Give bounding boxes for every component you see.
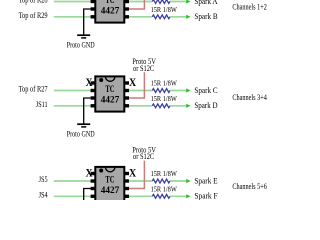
svg-text:Spark F: Spark F xyxy=(194,192,218,200)
svg-text:15R 1/8W: 15R 1/8W xyxy=(151,186,177,194)
svg-text:JS5: JS5 xyxy=(39,175,48,184)
svg-text:X: X xyxy=(86,168,94,180)
svg-text:X: X xyxy=(129,168,137,180)
svg-text:X: X xyxy=(129,77,137,89)
svg-text:TC: TC xyxy=(105,175,114,185)
svg-text:15R 1/8W: 15R 1/8W xyxy=(151,80,177,88)
svg-text:Channels 3+4: Channels 3+4 xyxy=(232,93,267,102)
svg-text:JS11: JS11 xyxy=(36,100,48,109)
svg-text:Top of R28: Top of R28 xyxy=(19,0,48,5)
svg-text:Channels 1+2: Channels 1+2 xyxy=(232,3,267,12)
svg-text:JS4: JS4 xyxy=(39,191,48,200)
svg-text:15R 1/8W: 15R 1/8W xyxy=(151,6,177,14)
svg-text:15R 1/8W: 15R 1/8W xyxy=(151,95,177,103)
svg-text:TC: TC xyxy=(105,0,114,5)
svg-text:Spark B: Spark B xyxy=(194,12,217,21)
svg-text:Spark C: Spark C xyxy=(194,86,217,95)
svg-text:or S12C: or S12C xyxy=(133,152,154,161)
svg-text:4427: 4427 xyxy=(101,6,120,16)
svg-text:Spark E: Spark E xyxy=(194,176,217,185)
svg-text:Proto GND: Proto GND xyxy=(67,40,95,49)
svg-text:Top of R29: Top of R29 xyxy=(19,11,48,20)
svg-text:15R 1/8W: 15R 1/8W xyxy=(151,170,177,178)
svg-text:Spark A: Spark A xyxy=(194,0,217,6)
svg-text:4427: 4427 xyxy=(101,185,120,195)
svg-text:Top of R27: Top of R27 xyxy=(19,85,48,94)
svg-text:4427: 4427 xyxy=(101,95,120,105)
svg-text:Proto GND: Proto GND xyxy=(67,129,95,138)
svg-text:Spark D: Spark D xyxy=(194,101,217,110)
svg-text:or S12C: or S12C xyxy=(133,64,154,73)
svg-text:TC: TC xyxy=(105,84,114,94)
svg-text:X: X xyxy=(86,77,94,89)
svg-text:Channels 5+6: Channels 5+6 xyxy=(232,182,267,191)
